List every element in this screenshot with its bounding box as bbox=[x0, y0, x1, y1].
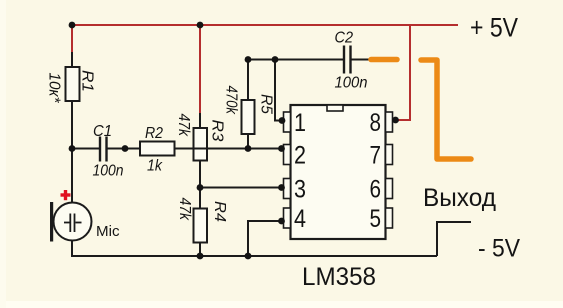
label + (mic polarity, red) bbox=[61, 190, 71, 200]
wire C1 node down to Mic bbox=[71, 149, 73, 204]
capacitor C1 bbox=[100, 137, 107, 162]
junction dot at pin 8 bbox=[392, 117, 399, 124]
svg-text:6: 6 bbox=[370, 176, 382, 204]
svg-text:LM358: LM358 bbox=[302, 263, 376, 291]
svg-text:R3: R3 bbox=[208, 120, 225, 142]
junction dot pin1 drop bbox=[272, 56, 279, 63]
junction dot C1 node bbox=[69, 145, 76, 152]
junction dot at pin 1 bbox=[279, 117, 286, 124]
pin 4 box bbox=[284, 208, 291, 228]
svg-text:7: 7 bbox=[370, 142, 382, 170]
svg-text:Mic: Mic bbox=[96, 223, 120, 240]
wire pin 3 row bbox=[200, 187, 284, 189]
pin 5 box bbox=[386, 208, 393, 228]
junction dot top rail / R1 bbox=[69, 22, 76, 29]
svg-text:C2: C2 bbox=[335, 30, 354, 47]
svg-text:10к*: 10к* bbox=[46, 73, 63, 104]
wire red drop to R3 bbox=[199, 25, 201, 113]
svg-text:5: 5 bbox=[370, 205, 382, 233]
wire R2 to pin 2 (crosses R3 body) bbox=[175, 148, 285, 150]
wire pin1/R5/C2 net bbox=[248, 59, 344, 61]
svg-text:3: 3 bbox=[294, 176, 306, 204]
junction dot R5 top bbox=[245, 56, 252, 63]
svg-text:47k: 47k bbox=[176, 198, 193, 221]
svg-text:1: 1 bbox=[294, 109, 306, 137]
svg-text:R4: R4 bbox=[211, 201, 228, 222]
svg-text:47k: 47k bbox=[175, 114, 192, 137]
junction dot C1/R2 bbox=[122, 145, 129, 152]
svg-text:8: 8 bbox=[370, 109, 382, 137]
wire drop to pin 1 bbox=[275, 60, 284, 121]
wire -5V terminal step bbox=[437, 222, 471, 256]
resistor R4 bbox=[194, 188, 208, 257]
resistor R1 bbox=[66, 67, 80, 101]
pin 8 box bbox=[386, 112, 393, 132]
pin 6 box bbox=[386, 179, 393, 199]
junction dot R3/R4 node bbox=[197, 184, 204, 191]
wire C2 right lead bbox=[351, 59, 370, 61]
svg-text:100n: 100n bbox=[335, 75, 368, 92]
pin 7 box bbox=[386, 145, 393, 165]
microphone Mic bbox=[50, 202, 92, 242]
wire pin 4 connection bbox=[248, 221, 284, 256]
wire node to C1 left plate bbox=[72, 148, 99, 150]
junction dot at pin 3 bbox=[278, 184, 285, 191]
wire R1 bottom to C1 node bbox=[71, 101, 73, 149]
wire red drop to R1 bbox=[71, 25, 73, 53]
wire R1 top lead bbox=[71, 52, 73, 67]
svg-text:R2: R2 bbox=[145, 125, 163, 142]
junction dot R4 / rail bbox=[197, 253, 204, 260]
junction dot pin4 drop / rail bbox=[245, 253, 252, 260]
wire +5V top rail (red) bbox=[71, 24, 458, 26]
svg-text:4: 4 bbox=[294, 205, 306, 233]
svg-text:+ 5V: + 5V bbox=[470, 13, 518, 43]
wire C1 right plate to R2 bbox=[107, 148, 140, 150]
junction dot R5 bottom / pin2 wire bbox=[245, 145, 252, 152]
op-amp U1 LM358 DIP-8 body bbox=[291, 105, 386, 239]
svg-text:470k: 470k bbox=[223, 86, 240, 115]
svg-text:1k: 1k bbox=[147, 158, 163, 175]
resistor R3 body bbox=[194, 113, 208, 188]
capacitor C2 bbox=[344, 46, 351, 74]
svg-text:2: 2 bbox=[294, 142, 306, 170]
pin 1 box bbox=[284, 112, 291, 132]
resistor R2 bbox=[140, 142, 175, 156]
svg-text:C1: C1 bbox=[93, 123, 112, 140]
resistor R5 bbox=[242, 60, 255, 149]
svg-text:- 5V: - 5V bbox=[478, 235, 520, 263]
junction dot at pin 2 bbox=[278, 145, 285, 152]
output wire highlight to Выход (orange) bbox=[421, 60, 471, 159]
svg-text:R1: R1 bbox=[79, 70, 96, 92]
svg-text:100n: 100n bbox=[93, 163, 124, 180]
svg-text:R5: R5 bbox=[258, 94, 275, 114]
wire Mic bottom to ground rail bbox=[72, 240, 437, 256]
output wire highlight from C2 (orange) bbox=[371, 57, 397, 63]
pin 2 box bbox=[284, 145, 291, 165]
svg-text:Выход: Выход bbox=[423, 184, 496, 212]
junction dot top rail / R3 bbox=[197, 22, 204, 29]
wire red drop to pin 8 bbox=[395, 24, 410, 120]
junction dot at pin 4 bbox=[278, 218, 285, 225]
pin 3 box bbox=[284, 179, 291, 199]
